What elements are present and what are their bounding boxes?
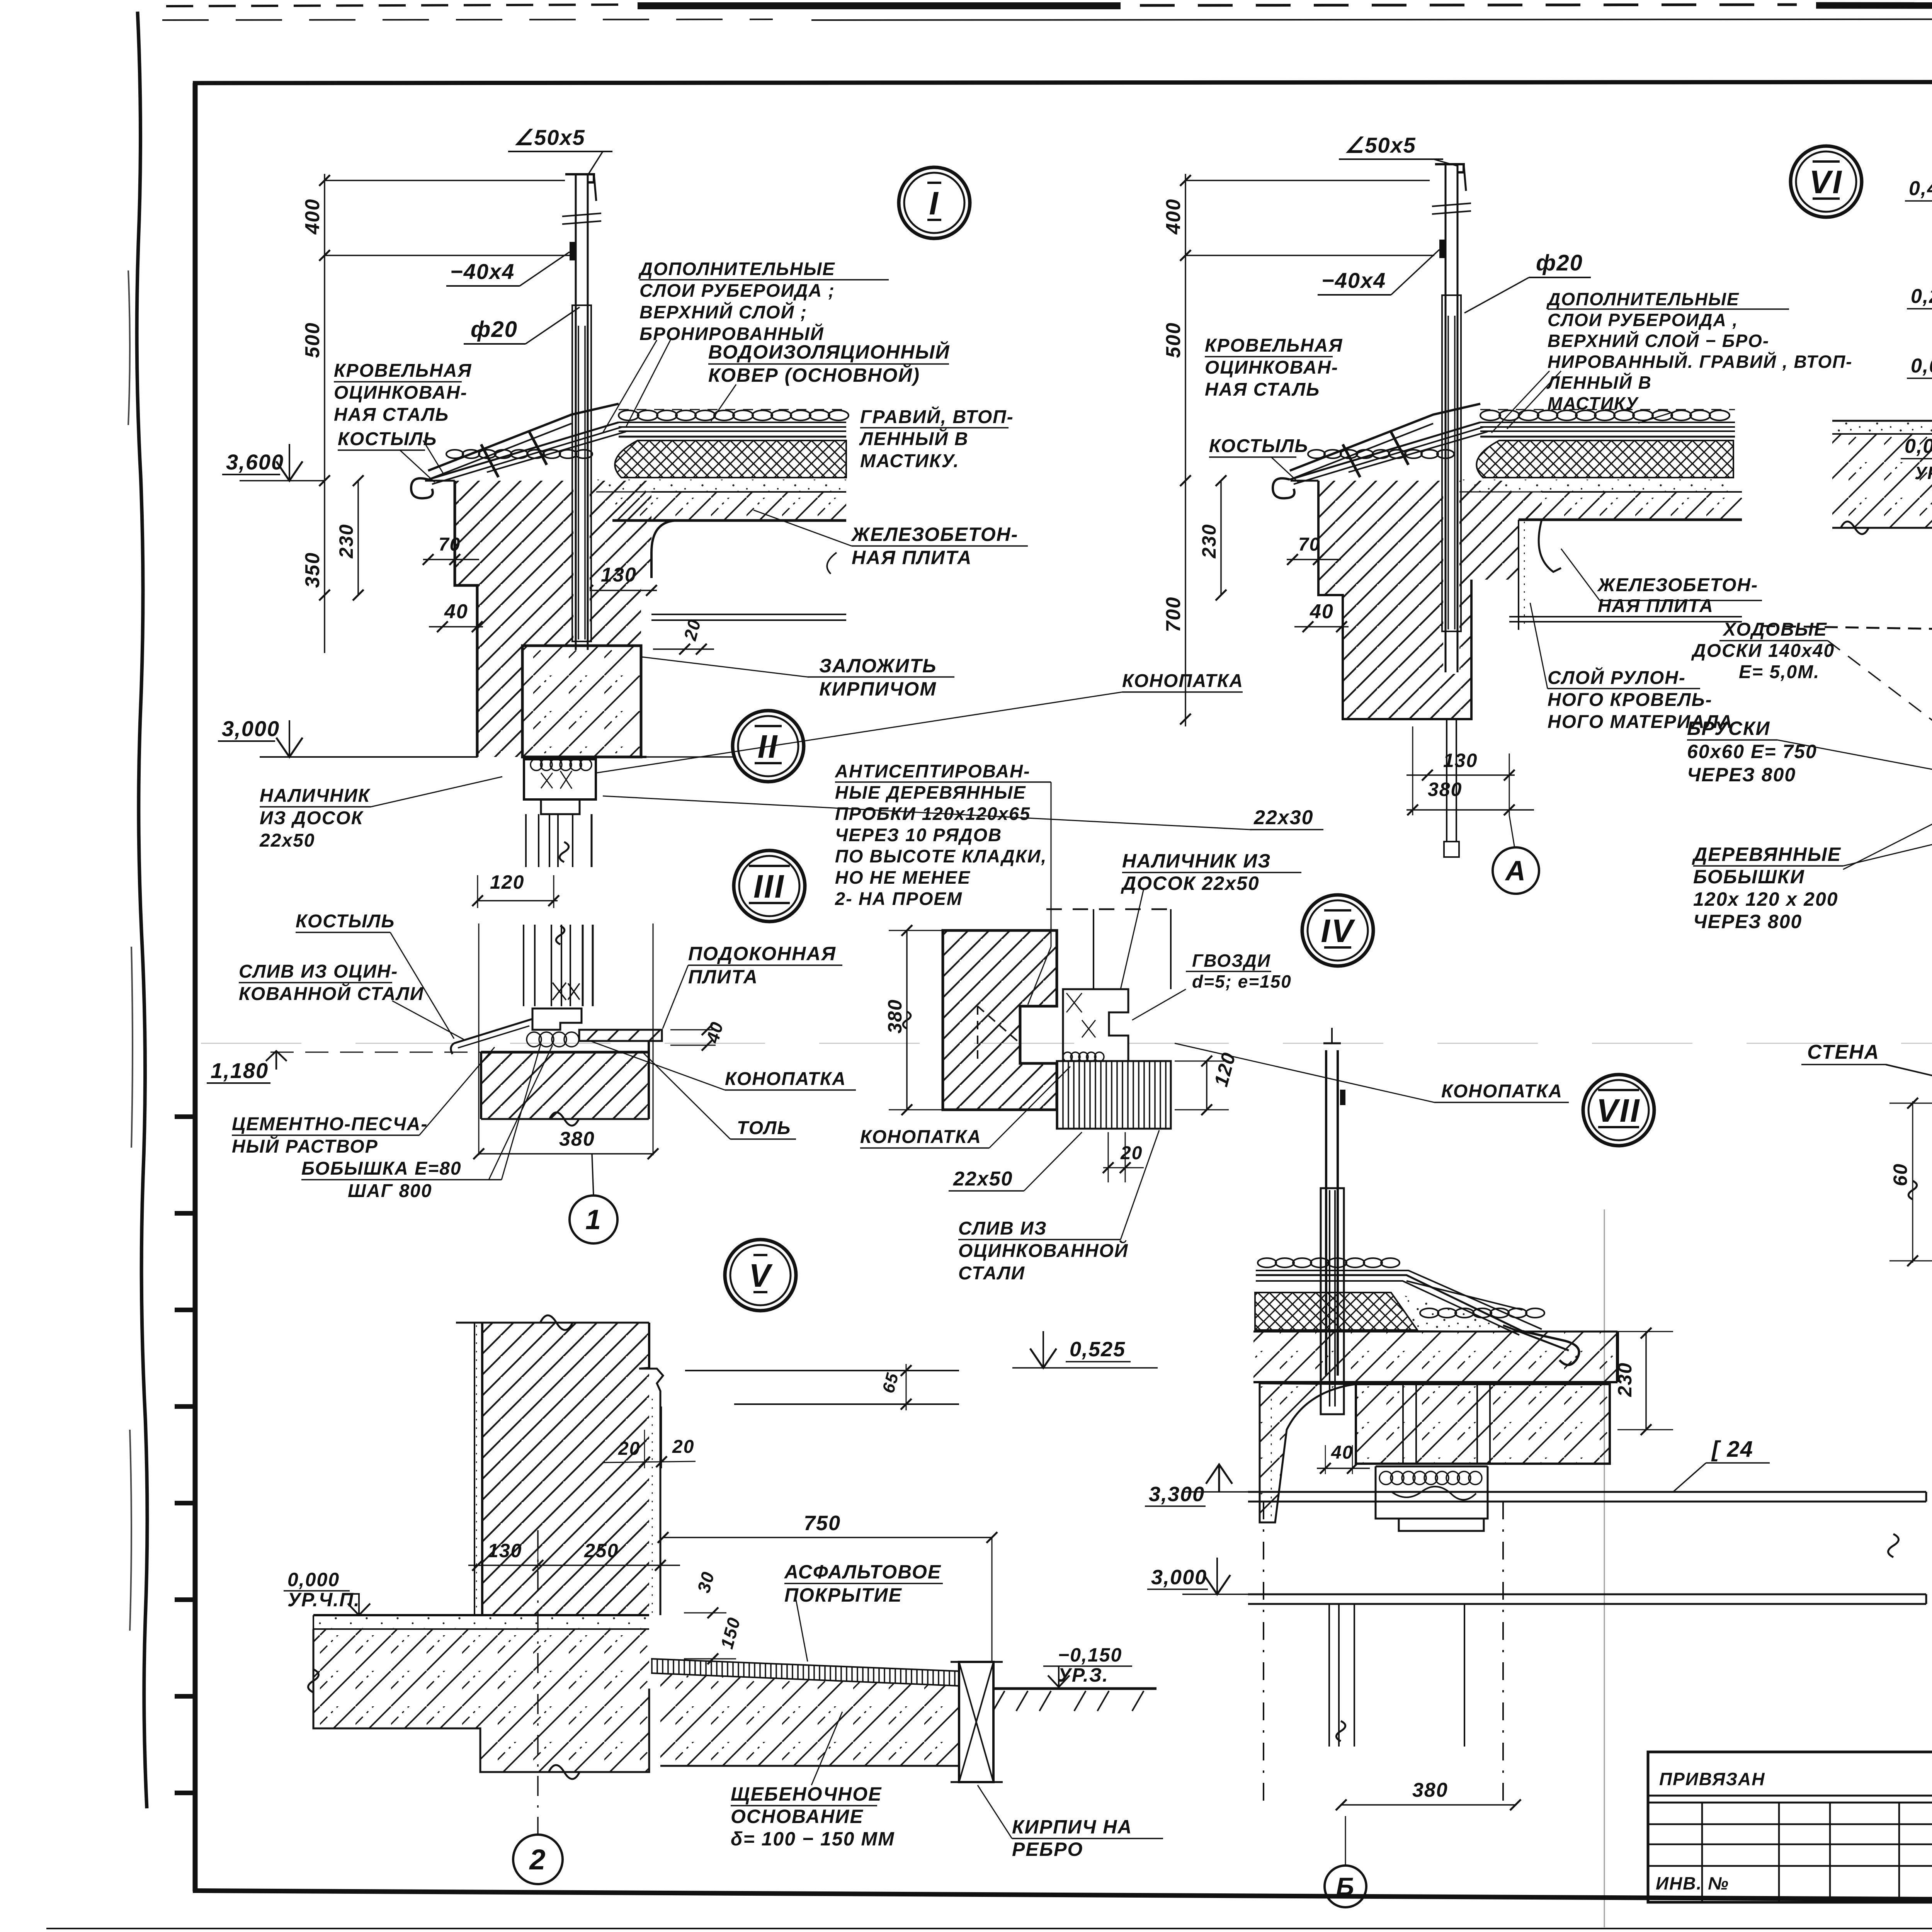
svg-text:ПЛИТА: ПЛИТА: [688, 966, 758, 988]
svg-text:230: 230: [335, 524, 357, 558]
detail IV dimension 380: [884, 925, 951, 1115]
svg-text:КОВАННОЙ СТАЛИ: КОВАННОЙ СТАЛИ: [239, 983, 424, 1004]
svg-text:VII: VII: [1597, 1092, 1641, 1129]
svg-text:∠50x5: ∠50x5: [514, 125, 585, 150]
svg-text:НАЯ СТАЛЬ: НАЯ СТАЛЬ: [334, 405, 449, 425]
svg-text:400: 400: [301, 199, 324, 235]
svg-text:ЦЕМЕНТНО-ПЕСЧА-: ЦЕМЕНТНО-ПЕСЧА-: [232, 1114, 428, 1134]
svg-text:СЛОИ РУБЕРОИДА ;: СЛОИ РУБЕРОИДА ;: [639, 280, 835, 301]
detail VI roof mortar speckle band: [1458, 480, 1733, 492]
detail V floor screed band: [313, 1615, 649, 1629]
detail II dimension 20 right: [646, 617, 734, 757]
detail VI text zhelezobetonnaya plita: [1561, 549, 1932, 629]
detail VI slab support detail: [1519, 520, 1561, 630]
detail V wall right render strip with drip: [639, 1368, 663, 1615]
detail VI label roofing steel: [1205, 335, 1343, 400]
detail V dimension 130 250: [468, 1540, 680, 1573]
svg-text:УР.Ч.П.: УР.Ч.П.: [287, 1589, 360, 1611]
svg-text:0,000: 0,000: [1905, 435, 1932, 457]
svg-text:350: 350: [301, 552, 324, 588]
detail V level mark -0.150: [1043, 1644, 1132, 1687]
detail VI roof membrane layers: [1290, 422, 1735, 484]
svg-text:СЛИВ ИЗ: СЛИВ ИЗ: [958, 1218, 1047, 1239]
detail IX text khodovye doski: [1691, 619, 1932, 761]
detail I dimension 70: [423, 534, 479, 565]
svg-text:НАЛИЧНИК: НАЛИЧНИК: [260, 786, 371, 806]
detail VII slab hatch: [1253, 1332, 1617, 1382]
svg-text:ГВОЗДИ: ГВОЗДИ: [1192, 951, 1271, 971]
svg-text:КОСТЫЛЬ: КОСТЫЛЬ: [338, 429, 437, 449]
svg-text:500: 500: [301, 322, 324, 358]
detail I circle mark: [899, 167, 970, 238]
detail I roof nails: [481, 432, 547, 477]
detail V wall plaster edge left: [474, 1323, 476, 1615]
svg-text:КОНОПАТКА: КОНОПАТКА: [1441, 1081, 1563, 1102]
svg-text:400: 400: [1162, 199, 1185, 235]
svg-text:ОСНОВАНИЕ: ОСНОВАНИЕ: [731, 1806, 864, 1827]
detail VII mortar speckle: [1255, 1293, 1524, 1332]
svg-text:22x30: 22x30: [1253, 806, 1314, 829]
detail VII eaves hook right: [1503, 1325, 1579, 1365]
detail II label nalichnik iz dosok: [259, 777, 502, 851]
svg-text:КОНОПАТКА: КОНОПАТКА: [725, 1069, 846, 1089]
detail VII caulking under lintel: [1376, 1466, 1488, 1531]
detail I label -40x4: [446, 252, 570, 286]
detail X dimension 60: [1889, 1098, 1932, 1266]
svg-text:1,180: 1,180: [211, 1058, 269, 1083]
detail I eaves gutter hook: [411, 404, 619, 498]
svg-text:ПРИВЯЗАН: ПРИВЯЗАН: [1659, 1769, 1765, 1789]
detail VII level 3.300: [1145, 1464, 1248, 1506]
detail IV dimension 20: [1103, 1132, 1144, 1182]
svg-text:120x 120 x 200: 120x 120 x 200: [1693, 888, 1838, 910]
detail I dimension chain 400/500/350: [301, 174, 570, 653]
svg-text:ПРОБКИ 120x120x65: ПРОБКИ 120x120x65: [835, 803, 1031, 824]
detail V label asphalt: [784, 1561, 943, 1662]
detail VI dimension 380 below: [1406, 726, 1534, 815]
detail V centerline and circle 2: [513, 1530, 563, 1884]
svg-text:20: 20: [618, 1439, 640, 1459]
detail VI dimension 130 below: [1406, 750, 1515, 781]
detail I ceiling lines right of wall: [651, 614, 846, 620]
svg-text:СТЕНА: СТЕНА: [1807, 1041, 1879, 1063]
svg-text:0,065: 0,065: [1911, 355, 1932, 377]
detail VI label L50x5: [1339, 133, 1457, 166]
detail III label cement mortar: [232, 1047, 495, 1157]
svg-text:20: 20: [672, 1437, 694, 1457]
svg-text:НАЯ СТАЛЬ: НАЯ СТАЛЬ: [1205, 379, 1320, 400]
detail IV nalichnik board with vertical grain: [1057, 1061, 1171, 1129]
svg-text:750: 750: [804, 1512, 841, 1535]
svg-text:230: 230: [1198, 524, 1220, 558]
detail III label kostyl: [296, 911, 454, 1039]
detail I ceiling cove: [651, 520, 678, 578]
detail V edge lines 65: [685, 1364, 959, 1410]
svg-text:ПО ВЫСОТЕ КЛАДКИ,: ПО ВЫСОТЕ КЛАДКИ,: [835, 846, 1047, 866]
svg-text:−40x4: −40x4: [450, 259, 515, 284]
detail VI roof nails: [1343, 432, 1408, 477]
svg-text:3,300: 3,300: [1149, 1483, 1205, 1506]
svg-text:∠50x5: ∠50x5: [1345, 133, 1416, 157]
detail VI dimension 70: [1287, 534, 1341, 565]
detail II level mark 3.000: [218, 716, 478, 757]
svg-text:НИРОВАННЫЙ. ГРАВИЙ , ВТОП-: НИРОВАННЫЙ. ГРАВИЙ , ВТОП-: [1548, 352, 1853, 372]
detail III label podokonnaya plita: [663, 943, 842, 1029]
detail IV label konopatka: [860, 1066, 1070, 1148]
detail I parapet post angle 50x5: [562, 174, 601, 651]
svg-text:3,000: 3,000: [222, 716, 280, 741]
detail V level mark 0.000: [284, 1569, 370, 1615]
scan artifact left torn edge: [128, 12, 147, 1808]
svg-text:ТОЛЬ: ТОЛЬ: [737, 1118, 791, 1138]
detail IV label sliv: [958, 1130, 1159, 1284]
detail I text vodoizolyacionny kover: [708, 341, 950, 421]
svg-text:БОБЫШКА Е=80: БОБЫШКА Е=80: [301, 1158, 462, 1179]
svg-text:[ 24: [ 24: [1711, 1437, 1753, 1462]
svg-text:СЛОИ РУБЕРОИДА ,: СЛОИ РУБЕРОИДА ,: [1548, 310, 1738, 330]
detail VI parapet wall hatch: [1291, 481, 1542, 719]
detail VII wall cove left: [1260, 1383, 1356, 1522]
detail V label brick on edge: [978, 1785, 1163, 1860]
detail VI ceiling lines: [1509, 617, 1742, 622]
svg-text:ДОПОЛНИТЕЛЬНЫЕ: ДОПОЛНИТЕЛЬНЫЕ: [638, 259, 835, 279]
detail VIII floor slab hatch: [1832, 434, 1932, 588]
detail III label tol: [641, 1051, 796, 1139]
svg-text:ЖЕЛЕЗОБЕТОН-: ЖЕЛЕЗОБЕТОН-: [1597, 575, 1758, 595]
detail V ground line: [993, 1689, 1156, 1711]
svg-text:ОЦИНКОВАН-: ОЦИНКОВАН-: [1205, 357, 1338, 378]
detail IV frame profile: [1046, 909, 1171, 1061]
detail VII gravel bumps sloped: [1258, 1258, 1544, 1318]
svg-text:НОГО КРОВЕЛЬ-: НОГО КРОВЕЛЬ-: [1548, 690, 1713, 710]
svg-text:КОНОПАТКА: КОНОПАТКА: [1122, 671, 1243, 691]
svg-text:380: 380: [1428, 779, 1462, 800]
detail V brick on edge: [951, 1662, 1003, 1782]
detail VI parapet post: [1432, 164, 1471, 857]
detail VII lintel block: [1356, 1384, 1610, 1464]
detail I roof insulation crosshatch: [615, 440, 846, 478]
svg-text:22x50: 22x50: [953, 1168, 1013, 1190]
svg-text:НАЯ ПЛИТА: НАЯ ПЛИТА: [852, 547, 972, 568]
svg-text:ГРАВИЙ, ВТОП-: ГРАВИЙ, ВТОП-: [860, 406, 1014, 427]
detail V wall hatch: [456, 1315, 649, 1615]
detail VI label -40x4: [1318, 250, 1439, 295]
detail IV dimension 120: [1175, 1050, 1240, 1115]
detail I parapet wall hatch: [425, 481, 651, 757]
svg-text:250: 250: [584, 1540, 619, 1561]
detail VI sloped gravel on eave: [1308, 450, 1454, 458]
detail IV circle mark: [1302, 895, 1373, 966]
detail VI text dopolnitelnye sloi: [1492, 289, 1853, 433]
svg-text:2- НА ПРОЕМ: 2- НА ПРОЕМ: [835, 888, 963, 909]
svg-text:2: 2: [529, 1844, 546, 1876]
detail V circle mark: [725, 1240, 796, 1311]
svg-text:НАЯ ПЛИТА: НАЯ ПЛИТА: [1598, 596, 1714, 616]
svg-text:ПОДОКОННАЯ: ПОДОКОННАЯ: [688, 943, 836, 964]
svg-text:0,440: 0,440: [1909, 177, 1932, 200]
svg-text:ШАГ 800: ШАГ 800: [348, 1181, 432, 1201]
detail VI dimension 40: [1294, 600, 1349, 632]
svg-text:d=5; е=150: d=5; е=150: [1192, 971, 1292, 992]
detail II label konopatka right: [597, 671, 1243, 773]
svg-text:40: 40: [1310, 600, 1334, 623]
svg-text:СТАЛИ: СТАЛИ: [958, 1263, 1025, 1284]
svg-text:ОЦИНКОВАН-: ОЦИНКОВАН-: [334, 383, 468, 403]
svg-text:КРОВЕЛЬНАЯ: КРОВЕЛЬНАЯ: [334, 361, 472, 381]
detail I text dopolnitelnye sloi: [603, 259, 889, 433]
detail I text zalozhit kirpichom: [641, 655, 954, 700]
svg-text:ЧЕРЕЗ 800: ЧЕРЕЗ 800: [1687, 764, 1796, 786]
scan artifact top edge band: [162, 2, 1932, 21]
detail VI dimension 230: [1198, 475, 1226, 600]
svg-text:ЛЕННЫЙ В: ЛЕННЫЙ В: [859, 428, 969, 449]
frame bottom edge: [193, 1891, 1932, 1903]
detail VII dimension 40: [1317, 1442, 1370, 1474]
frame top edge: [193, 82, 1932, 83]
detail VII roof layers sloped: [1256, 1270, 1542, 1335]
detail VII beam flange lines: [1248, 1492, 1926, 1604]
svg-text:ДОПОЛНИТЕЛЬНЫЕ: ДОПОЛНИТЕЛЬНЫЕ: [1546, 289, 1740, 309]
detail I roof mortar speckle band: [596, 480, 846, 492]
svg-text:ХОДОВЫЕ: ХОДОВЫЕ: [1722, 619, 1827, 640]
detail II caulking row under lintel: [524, 757, 646, 770]
detail III sill slab hatched: [579, 1030, 662, 1041]
detail VI circle mark: [1791, 146, 1862, 217]
svg-text:ОЦИНКОВАННОЙ: ОЦИНКОВАННОЙ: [958, 1240, 1128, 1261]
detail I dimension 40: [429, 600, 483, 632]
detail III window frame above sill: [479, 923, 653, 1155]
detail IV label gvozdi: [1132, 951, 1292, 1020]
detail IV label konopatka right: [1175, 1043, 1569, 1102]
frame left edge ticks: [175, 1117, 195, 1793]
detail I text gravii vtoplennyi: [859, 406, 1014, 471]
detail V dimensions 20 20: [603, 1406, 696, 1468]
detail VIII levels 0.440 0.215 0.065 0.000: [1901, 177, 1932, 483]
svg-text:130: 130: [1443, 750, 1478, 771]
svg-text:ДЕРЕВЯННЫЕ: ДЕРЕВЯННЫЕ: [1692, 844, 1841, 865]
detail V asphalt apron: [651, 1659, 959, 1686]
svg-text:ДОСКИ 140x40: ДОСКИ 140x40: [1691, 641, 1835, 661]
detail III dimension 380: [473, 1128, 658, 1159]
detail VI label kostyl: [1209, 436, 1308, 482]
svg-text:22x50: 22x50: [259, 830, 315, 851]
detail I label roofing steel: [334, 361, 472, 475]
svg-text:БРУСКИ: БРУСКИ: [1687, 718, 1770, 739]
svg-text:ИНВ. №: ИНВ. №: [1656, 1873, 1729, 1893]
detail II circle mark: [733, 711, 804, 782]
detail I label f20: [464, 307, 580, 344]
detail III label konopatka right: [591, 1041, 856, 1090]
detail IV label nalichnik: [1121, 850, 1301, 989]
detail V dimensions 30 150: [684, 1569, 744, 1664]
detail VI dimension chain 400/500/700: [1162, 174, 1434, 726]
svg-text:40: 40: [1331, 1442, 1353, 1463]
detail III wall below sill: [481, 1041, 649, 1126]
svg-text:СЛИВ ИЗ ОЦИН-: СЛИВ ИЗ ОЦИН-: [239, 961, 398, 982]
detail V foundation hatch: [308, 1629, 650, 1779]
svg-text:70: 70: [1298, 534, 1320, 555]
svg-text:0,000: 0,000: [287, 1569, 340, 1590]
detail II window head frame: [524, 759, 596, 867]
detail II dimension 120: [472, 871, 559, 908]
svg-text:НАЛИЧНИК ИЗ: НАЛИЧНИК ИЗ: [1122, 850, 1271, 872]
svg-text:ЩЕБЕНОЧНОЕ: ЩЕБЕНОЧНОЕ: [731, 1783, 882, 1805]
svg-text:Е= 5,0М.: Е= 5,0М.: [1739, 662, 1820, 682]
detail IV text antiseptic plugs: [835, 761, 1051, 1005]
svg-text:МАСТИКУ.: МАСТИКУ.: [860, 451, 959, 471]
detail VII section circle B bottom: [1325, 1816, 1366, 1907]
detail II label 22x30: [603, 796, 1323, 830]
detail VIII floor speckle strip: [1832, 421, 1932, 434]
detail I level mark 3.600: [222, 444, 325, 481]
svg-text:ЛЕННЫЙ В: ЛЕННЫЙ В: [1546, 372, 1652, 393]
svg-text:V: V: [749, 1257, 773, 1294]
svg-text:АНТИСЕПТИРОВАН-: АНТИСЕПТИРОВАН-: [835, 761, 1031, 781]
svg-text:500: 500: [1162, 322, 1185, 358]
detail I label kostyl: [338, 429, 437, 482]
svg-text:РЕБРО: РЕБРО: [1012, 1838, 1083, 1860]
svg-text:230: 230: [1614, 1362, 1636, 1397]
detail I dimension 130: [580, 564, 657, 596]
detail III label sliv iz stali: [239, 961, 464, 1039]
detail III level mark 1.180: [207, 1051, 481, 1083]
svg-text:−40x4: −40x4: [1321, 268, 1386, 293]
svg-text:ВЕРХНИЙ СЛОЙ − БРО-: ВЕРХНИЙ СЛОЙ − БРО-: [1548, 331, 1769, 351]
detail IX text derevyannye bobyshki: [1692, 804, 1932, 932]
detail I lintel block: [522, 646, 641, 757]
svg-text:УР.Ч.П.: УР.Ч.П.: [1915, 463, 1932, 483]
detail VI roof slab hatch band: [1519, 492, 1742, 520]
svg-text:120: 120: [490, 871, 524, 893]
svg-text:ПОКРЫТИЕ: ПОКРЫТИЕ: [784, 1584, 902, 1606]
svg-text:1: 1: [585, 1204, 602, 1235]
svg-text:СЛОЙ РУЛОН-: СЛОЙ РУЛОН-: [1548, 667, 1686, 688]
svg-text:3,000: 3,000: [1151, 1566, 1207, 1589]
detail III caulking blobs: [527, 1032, 579, 1047]
detail III sliv sloped sheet: [451, 1009, 532, 1054]
svg-text:ф20: ф20: [1536, 250, 1583, 276]
svg-text:ВЕРХНИЙ СЛОЙ ;: ВЕРХНИЙ СЛОЙ ;: [639, 302, 807, 322]
svg-text:380: 380: [884, 999, 906, 1033]
scan artifact bottom page lines: [0, 1929, 1932, 1932]
svg-text:НЫЕ ДЕРЕВЯННЫЕ: НЫЕ ДЕРЕВЯННЫЕ: [835, 782, 1026, 803]
svg-text:Б: Б: [1336, 1872, 1355, 1901]
svg-text:ЧЕРЕЗ 10 РЯДОВ: ЧЕРЕЗ 10 РЯДОВ: [835, 825, 1002, 845]
detail VII insulation crosshatch: [1255, 1293, 1417, 1330]
detail V dimension 750: [658, 1512, 997, 1662]
detail VII circle mark: [1583, 1075, 1654, 1146]
detail VI section circle A: [1493, 815, 1539, 894]
detail VII mast: [1321, 1028, 1345, 1414]
svg-text:УР.З.: УР.З.: [1058, 1664, 1109, 1686]
detail VI text sloy rulonnogo: [1530, 603, 1733, 732]
svg-text:ИЗ ДОСОК: ИЗ ДОСОК: [260, 808, 364, 828]
svg-text:БОБЫШКИ: БОБЫШКИ: [1693, 866, 1805, 888]
detail V label rubble base: [731, 1712, 895, 1850]
svg-text:0,215: 0,215: [1911, 285, 1932, 308]
detail VII dimension 230 right: [1586, 1328, 1673, 1435]
detail I sloped gravel on eave: [446, 450, 592, 458]
detail VII posts below beam: [1264, 1502, 1503, 1805]
svg-text:40: 40: [444, 600, 468, 623]
svg-text:δ= 100 − 150 ММ: δ= 100 − 150 ММ: [731, 1828, 895, 1850]
fold crease horizontal: [201, 1043, 1932, 1044]
svg-text:ВОДОИЗОЛЯЦИОННЫЙ: ВОДОИЗОЛЯЦИОННЫЙ: [708, 341, 950, 363]
svg-text:3,600: 3,600: [226, 450, 284, 474]
detail I dimension 230: [335, 475, 364, 600]
detail VII dimension 380 bottom: [1336, 1779, 1521, 1810]
detail VI eaves gutter hook: [1273, 404, 1480, 498]
svg-text:ф20: ф20: [471, 317, 518, 342]
svg-text:20: 20: [1120, 1143, 1143, 1163]
detail VI label f20: [1464, 250, 1591, 313]
svg-text:НО НЕ МЕНЕЕ: НО НЕ МЕНЕЕ: [835, 867, 971, 888]
floating level 0.525: [1012, 1331, 1158, 1368]
svg-text:−0,150: −0,150: [1058, 1644, 1122, 1666]
svg-text:IV: IV: [1321, 913, 1355, 949]
svg-text:ЖЕЛЕЗОБЕТОН-: ЖЕЛЕЗОБЕТОН-: [850, 524, 1018, 545]
svg-text:III: III: [753, 868, 785, 905]
detail VII level 3.000: [1147, 1558, 1248, 1594]
detail III sill wood board profile: [532, 1009, 582, 1030]
fold crease vertical: [1604, 1209, 1605, 1927]
detail III circle mark: [734, 850, 805, 922]
frame left edge: [193, 83, 198, 1891]
svg-text:КРОВЕЛЬНАЯ: КРОВЕЛЬНАЯ: [1205, 335, 1343, 356]
svg-text:VI: VI: [1809, 164, 1843, 200]
detail I roof membrane layers: [428, 422, 846, 484]
detail IX text bruski: [1687, 718, 1932, 786]
detail I roof slab hatch band: [612, 492, 846, 520]
detail VII label I24: [1673, 1437, 1770, 1492]
detail X label stena: [1801, 1041, 1932, 1104]
svg-text:I: I: [929, 185, 939, 221]
svg-text:МАСТИКУ: МАСТИКУ: [1548, 393, 1639, 413]
detail I label L50x5: [508, 125, 612, 176]
detail IV wall block hatch: [943, 930, 1057, 1110]
detail I gravel bumps row: [619, 410, 849, 420]
detail VI roof insulation crosshatch: [1476, 440, 1733, 478]
svg-text:КОСТЫЛЬ: КОСТЫЛЬ: [1209, 436, 1308, 456]
detail IV label 22x50: [949, 1132, 1082, 1191]
detail III label bobyshka: [301, 1043, 553, 1201]
svg-text:130: 130: [488, 1540, 522, 1561]
svg-text:60: 60: [1889, 1163, 1911, 1186]
svg-text:0,525: 0,525: [1070, 1338, 1126, 1361]
title block left section: [1648, 1752, 1932, 1902]
svg-text:АСФАЛЬТОВОЕ: АСФАЛЬТОВОЕ: [784, 1561, 941, 1583]
svg-text:700: 700: [1162, 597, 1185, 633]
detail III dimension 40 right: [670, 1019, 727, 1051]
detail V rubble base hatch: [660, 1673, 959, 1766]
svg-text:КОСТЫЛЬ: КОСТЫЛЬ: [296, 911, 395, 932]
svg-text:ДОСОК 22x50: ДОСОК 22x50: [1121, 872, 1260, 894]
svg-text:ЧЕРЕЗ 800: ЧЕРЕЗ 800: [1693, 911, 1802, 932]
svg-text:380: 380: [559, 1128, 595, 1150]
svg-text:КОВЕР (ОСНОВНОЙ): КОВЕР (ОСНОВНОЙ): [708, 364, 920, 386]
svg-text:КИРПИЧ НА: КИРПИЧ НА: [1012, 1816, 1132, 1838]
svg-text:НЫЙ РАСТВОР: НЫЙ РАСТВОР: [232, 1136, 378, 1157]
detail VI gravel bumps row: [1480, 410, 1735, 420]
svg-text:ЗАЛОЖИТЬ: ЗАЛОЖИТЬ: [819, 655, 937, 677]
detail III section circle 1: [570, 1154, 617, 1243]
detail I text zhelezobetonnaya plita: [753, 510, 1028, 574]
svg-text:380: 380: [1412, 1779, 1448, 1801]
svg-text:КИРПИЧОМ: КИРПИЧОМ: [819, 678, 937, 700]
svg-text:А: А: [1505, 855, 1526, 886]
svg-text:КОНОПАТКА: КОНОПАТКА: [860, 1127, 981, 1147]
